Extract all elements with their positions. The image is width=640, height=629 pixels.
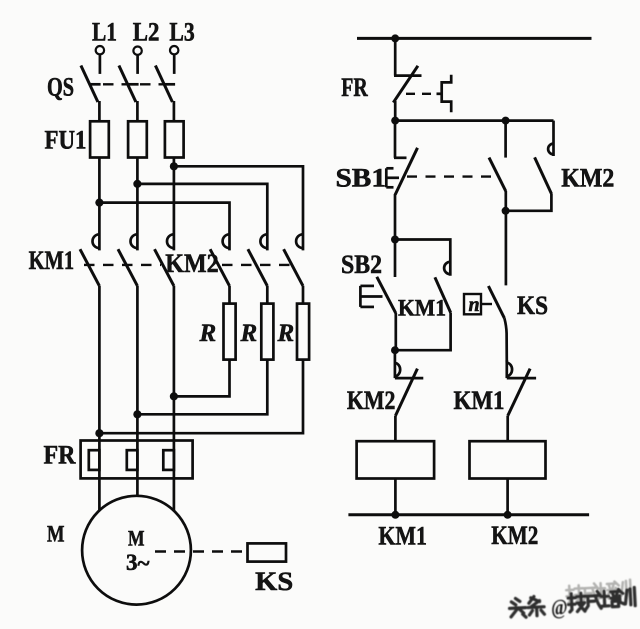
node coil KM2 rail <box>504 511 512 519</box>
node coil KM1 rail <box>391 511 399 519</box>
switch QS pole 2 <box>119 66 139 122</box>
svg-text:KS: KS <box>255 567 293 596</box>
svg-text:QS: QS <box>47 73 74 102</box>
wire coil KM1 to rail <box>394 479 397 515</box>
wire tap phase2 to KM2 pole5 <box>137 184 267 251</box>
svg-text:3~: 3~ <box>126 550 150 576</box>
fuse FU1 pole 2 <box>128 121 147 157</box>
n linkage dash <box>482 303 493 305</box>
terminal L2 <box>133 47 141 55</box>
svg-text:L3: L3 <box>169 18 194 47</box>
node SB2 top <box>391 236 399 244</box>
contactor KM2 main contact 4 <box>210 234 229 286</box>
FR heater 2 <box>127 450 138 470</box>
contactor KM2 main contact 5 <box>248 234 267 286</box>
KM1-KM2 linkage dashed <box>84 264 161 266</box>
svg-text:M: M <box>47 522 65 547</box>
contactor KM1 NC interlock contact <box>507 360 536 441</box>
top rail <box>357 37 592 40</box>
watermark echo <box>566 580 631 604</box>
node R1-phase3 <box>170 392 178 400</box>
wire phase1 KM1 to FR <box>98 286 101 450</box>
node tap phase1 <box>95 199 103 207</box>
svg-text:SB1: SB1 <box>336 163 387 192</box>
coil KM1 <box>357 441 435 478</box>
svg-text:M: M <box>128 526 145 551</box>
FR heater 1 <box>89 450 100 470</box>
resistor R2 <box>261 304 273 360</box>
wire L1 stub <box>99 55 102 74</box>
svg-text:L2: L2 <box>133 18 160 47</box>
wire KM2 pole5 to R2 <box>266 286 269 304</box>
node R3-phase1 <box>95 429 103 437</box>
wire tap phase1 to KM2 pole4 <box>99 203 229 251</box>
wire KM2 pole6 to R3 <box>302 286 305 304</box>
contactor KM1 aux NO self-hold contact <box>395 240 451 351</box>
contactor KM1 main contact 3 <box>155 234 174 286</box>
FR heater 3 <box>163 450 174 470</box>
speed sensor KS box <box>248 543 287 561</box>
switch QS pole 1 <box>81 66 101 122</box>
svg-text:n: n <box>469 294 480 316</box>
svg-text:KM1: KM1 <box>29 246 75 275</box>
relay KS NO contact <box>488 286 506 363</box>
wire R2 to phase2 <box>137 360 267 415</box>
wire FR to motor 3 <box>173 470 176 511</box>
wire R3 to phase1 <box>99 360 303 434</box>
svg-text:@: @ <box>550 594 568 620</box>
relay FR NC contact <box>393 38 421 120</box>
svg-text:KS: KS <box>517 291 548 320</box>
svg-text:R: R <box>277 320 295 347</box>
node SB2 bottom <box>391 346 399 354</box>
wire L3 stub <box>173 55 176 74</box>
terminal L3 <box>170 46 178 54</box>
wire phase2 KM1 to FR <box>136 286 139 450</box>
wire FR to motor 2 <box>136 470 139 496</box>
wire R1 to phase3 <box>174 360 230 397</box>
svg-text:L1: L1 <box>92 18 117 47</box>
node R2-phase2 <box>133 410 141 418</box>
dashed shaft link to KS <box>155 550 248 552</box>
contactor KM2 main contact 6 <box>284 234 303 286</box>
wire coil KM2 to rail <box>506 479 509 515</box>
motor M circle <box>82 496 191 605</box>
svg-text:KM2: KM2 <box>561 164 614 193</box>
node rail-FR <box>391 34 399 42</box>
svg-text:FR: FR <box>44 441 76 470</box>
fuse FU1 pole 3 <box>165 121 184 157</box>
contactor KM2 NC interlock contact <box>395 350 423 441</box>
contactor KM1 main contact 1 <box>80 234 99 286</box>
svg-text:KM2: KM2 <box>347 386 396 415</box>
relay FR box <box>81 441 193 479</box>
node aux join <box>502 207 510 215</box>
svg-text:KM1: KM1 <box>378 522 427 551</box>
switch QS pole 3 <box>155 66 175 122</box>
wire FR to motor 1 <box>98 470 101 511</box>
bottom rail <box>348 513 589 516</box>
svg-text:KM1: KM1 <box>454 386 505 415</box>
wire node to KM2 aux branch <box>395 119 553 122</box>
watermark text dark <box>509 587 636 621</box>
coil KM2 <box>470 441 546 478</box>
resistor R3 <box>297 304 309 360</box>
FR trip linkage dashed <box>406 93 435 95</box>
wire phase3 fuse to KM1 <box>173 158 176 251</box>
svg-text:R: R <box>240 320 258 347</box>
resistor R1 <box>224 304 236 360</box>
button SB2 NO contact <box>377 240 396 351</box>
svg-text:FU1: FU1 <box>45 126 87 155</box>
button SB1 NO contact <box>489 121 506 211</box>
SB2 actuator E <box>360 286 382 307</box>
contactor KM1 main contact 2 <box>118 234 137 286</box>
wire phase1 fuse to KM1 <box>98 158 101 251</box>
button SB1 NC contact <box>394 121 418 240</box>
SB1 actuator E <box>386 168 399 187</box>
wire L2 stub <box>136 55 139 74</box>
fuse FU1 pole 1 <box>90 121 109 157</box>
wire join to KS contact <box>505 211 508 286</box>
svg-text:KM2: KM2 <box>491 521 538 550</box>
terminal L1 <box>96 46 104 54</box>
wire KM2 pole4 to R1 <box>228 286 231 304</box>
SB1 linkage dashed <box>407 175 497 177</box>
node tap phase3 <box>170 162 178 170</box>
node branch split <box>502 117 510 125</box>
svg-text:KM1: KM1 <box>398 296 446 321</box>
wire tap phase3 to KM2 pole6 <box>174 166 303 250</box>
svg-text:FR: FR <box>341 73 368 102</box>
wire phase3 KM1 to FR <box>173 286 176 450</box>
QS linkage dashed <box>103 83 166 85</box>
svg-text:R: R <box>199 320 217 347</box>
svg-text:SB2: SB2 <box>341 250 382 279</box>
KS speed actuator n box <box>464 294 481 316</box>
contactor KM2 aux NO contact <box>506 121 554 211</box>
wire phase2 fuse to KM1 <box>136 158 139 251</box>
FR actuator symbol <box>437 75 452 112</box>
node FR bottom <box>391 117 399 125</box>
node tap phase2 <box>133 180 141 188</box>
